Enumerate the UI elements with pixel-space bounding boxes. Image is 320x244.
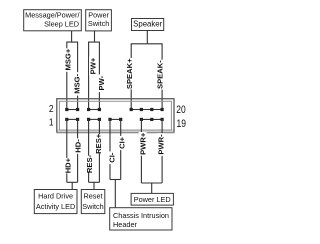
svg-text:19: 19: [176, 118, 186, 130]
bracket HD: [67, 181, 78, 183]
pin 18: [150, 108, 153, 111]
wire HD+ down: [66, 119, 68, 182]
pin pair line HD (pins 1,3): [67, 118, 78, 120]
svg-text:MSG+: MSG+: [64, 48, 73, 70]
pin pair line RES (pins 5,7): [89, 118, 100, 120]
svg-text:PWR+: PWR+: [138, 132, 147, 155]
halo CI-: [108, 151, 116, 164]
box Reset Switch: [81, 190, 105, 214]
box Speaker: [132, 19, 164, 31]
svg-text:Speaker: Speaker: [133, 20, 162, 29]
svg-text:HD+: HD+: [64, 157, 73, 173]
svg-text:Switch: Switch: [88, 19, 110, 28]
svg-text:Sleep LED: Sleep LED: [44, 19, 79, 28]
halo PWR-: [157, 133, 165, 156]
bracket PWR: [141, 182, 162, 184]
svg-text:CI-: CI-: [107, 152, 116, 163]
svg-text:PW+: PW+: [89, 57, 98, 74]
pin line PWR (pins 15,17,19): [141, 118, 162, 120]
box Chassis Intrusion Header: [110, 208, 172, 230]
svg-text:SPEAK+: SPEAK+: [125, 58, 134, 89]
halo HD-: [74, 138, 82, 154]
svg-text:Power: Power: [88, 10, 109, 19]
wire RES+ down: [98, 119, 100, 182]
halo MSG-: [73, 72, 81, 96]
pin 8: [98, 108, 101, 111]
pin 6: [87, 108, 90, 111]
halo PW-: [98, 74, 106, 92]
svg-text:SPEAK-: SPEAK-: [155, 60, 164, 89]
svg-text:Activity LED: Activity LED: [36, 202, 75, 211]
svg-text:20: 20: [176, 104, 186, 116]
stub to Reset box: [93, 182, 95, 189]
pin pair line CI (pins 9,11): [110, 118, 121, 120]
svg-text:Power LED: Power LED: [134, 195, 171, 204]
pin 7: [98, 118, 101, 121]
svg-text:Header: Header: [113, 220, 138, 229]
wire RES- down: [88, 119, 90, 182]
box Power LED: [131, 193, 173, 205]
wire bracket PW: [89, 42, 100, 109]
svg-text:RES+: RES+: [94, 133, 103, 154]
svg-text:Message/Power/: Message/Power/: [25, 11, 80, 20]
wire HD- down: [77, 119, 79, 182]
halo MSG+: [64, 48, 72, 72]
halo PWR+: [139, 132, 147, 156]
svg-text:Hard Drive: Hard Drive: [38, 191, 73, 200]
halo SPEAK-: [156, 60, 164, 90]
box Power Switch: [86, 10, 112, 31]
pin 11: [119, 118, 122, 121]
wire PWR+ down: [140, 119, 142, 183]
halo RES-: [86, 156, 94, 173]
svg-text:1: 1: [49, 116, 54, 128]
box Hard Drive Activity LED: [34, 190, 77, 214]
pin 4: [76, 108, 79, 111]
bracket CI: [110, 179, 121, 181]
pin 20: [161, 108, 164, 111]
wire bracket SPEAK: [131, 44, 162, 110]
svg-text:Reset: Reset: [83, 191, 102, 200]
stub to Power LED box: [151, 183, 153, 193]
halo PW+: [89, 57, 97, 76]
connector block outer border: [57, 99, 174, 133]
pin 14: [130, 108, 133, 111]
halo SPEAK+: [126, 58, 134, 90]
wire PWR- down: [161, 119, 163, 183]
wire stub from Speaker box: [146, 31, 148, 44]
svg-text:2: 2: [49, 102, 54, 114]
box Message/Power/Sleep LED: [24, 10, 82, 31]
pin 17: [150, 118, 153, 121]
stub to Hard Drive box: [71, 182, 73, 189]
svg-text:HD-: HD-: [74, 139, 83, 153]
wire bracket MSG: [67, 42, 78, 109]
pin pair line PW (pins 6,8): [89, 109, 100, 111]
svg-text:Chassis Intrusion: Chassis Intrusion: [113, 211, 169, 220]
bracket RES: [89, 181, 100, 183]
wire stub from Message box: [71, 31, 73, 42]
svg-text:Switch: Switch: [82, 202, 104, 211]
halo CI+: [118, 136, 126, 150]
svg-text:PW-: PW-: [97, 75, 106, 90]
halo HD+: [64, 158, 72, 174]
connector block inner border: [59, 101, 171, 130]
halo RES+: [95, 134, 103, 153]
pin pair line MSG (pins 2,4): [67, 109, 78, 111]
stub to Chassis box: [114, 180, 116, 208]
pin 9: [108, 118, 111, 121]
pin 2: [65, 108, 68, 111]
pin 1: [65, 118, 68, 121]
pin line SPEAK (pins 14..20): [131, 109, 162, 111]
pin 15: [140, 118, 143, 121]
pin 19: [161, 118, 164, 121]
svg-text:PWR-: PWR-: [157, 134, 166, 155]
wire stub from Power Switch box: [94, 31, 96, 42]
wire CI- down: [109, 119, 111, 179]
connector block bottom blend band: [56, 129, 174, 133]
wire CI+ down: [120, 119, 122, 179]
pin 5: [87, 118, 90, 121]
svg-text:RES-: RES-: [85, 154, 94, 173]
svg-text:MSG-: MSG-: [72, 73, 81, 93]
pin 3: [76, 118, 79, 121]
svg-text:CI+: CI+: [118, 136, 127, 149]
pin 16: [140, 108, 143, 111]
